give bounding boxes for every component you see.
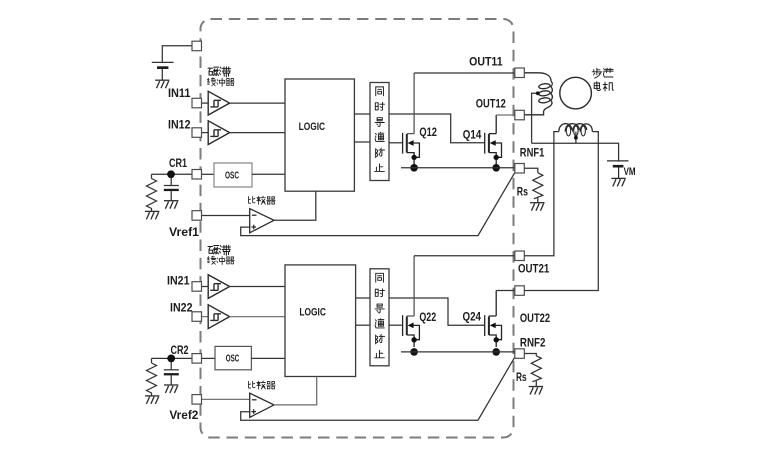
capacitor C0 (bypass, top-left) — [152, 61, 174, 63]
comparator A2 — [250, 393, 274, 417]
simultaneous-conduction-prevention block 1 — [370, 83, 389, 181]
wire from top-left pin to bypass capacitor — [162, 46, 192, 63]
wire LOGIC1 to prevention block (lower) — [354, 141, 370, 143]
pin Vref1 — [192, 211, 202, 221]
ground — [164, 201, 178, 209]
pin IN21 — [192, 282, 202, 292]
simultaneous-conduction-prevention block 2 — [370, 269, 389, 366]
pin OUT22 — [515, 286, 525, 296]
wire buffer U1B out to LOGIC — [230, 132, 285, 134]
OSC block 2 — [215, 346, 251, 369]
wire L1 centre tap to VM rail — [532, 93, 538, 143]
wire prevention1 upper out routed to Q14 gate — [389, 114, 484, 143]
wire VM rail — [532, 143, 619, 161]
pin IN12 — [192, 128, 202, 138]
ground — [530, 203, 544, 211]
wire buffer U1A out to LOGIC — [230, 102, 285, 104]
svg-text:Rs: Rs — [517, 186, 528, 198]
svg-text:OUT22: OUT22 — [520, 313, 550, 325]
wire OSC2 to LOGIC — [251, 357, 285, 359]
hysteresis buffer U1B — [208, 121, 229, 145]
hysteresis buffer U2B — [208, 305, 229, 329]
label simultaneous-conduction-prevention (CJK) vertical bottom block — [375, 273, 385, 358]
ground — [529, 387, 543, 395]
wire buffer U2B out to LOGIC — [230, 316, 285, 318]
node L2 tap dot — [574, 136, 578, 140]
pin RNF1 — [515, 164, 525, 174]
resistor Rs (channel 1 sense) — [533, 173, 543, 203]
wire LOGIC2 to prevention block (lower) — [356, 324, 370, 326]
svg-text:IN12: IN12 — [168, 120, 191, 132]
wire LOGIC1 to prevention block (upper) — [354, 113, 370, 115]
wire OUT12 net — [496, 114, 515, 116]
inductor L2 (motor winding B) between OUT21/OUT22 — [524, 132, 559, 256]
svg-text:Vref1: Vref1 — [169, 227, 200, 239]
svg-text:IN22: IN22 — [170, 303, 193, 315]
transistor Q14 — [485, 115, 502, 172]
svg-text:Rs: Rs — [516, 372, 527, 384]
svg-text:OUT11: OUT11 — [469, 56, 503, 68]
pin top-left unnamed — [192, 41, 202, 51]
wire IN11 pin to buffer — [202, 102, 208, 104]
svg-text:Q14: Q14 — [463, 129, 482, 141]
svg-text:LOGIC: LOGIC — [299, 121, 326, 133]
svg-text:RNF2: RNF2 — [520, 338, 546, 350]
svg-text:RNF1: RNF1 — [520, 148, 545, 160]
svg-text:OUT12: OUT12 — [476, 98, 506, 110]
resistor R2 (CR2 timing) — [147, 363, 157, 396]
resistor Rs (channel 2 sense) — [531, 356, 541, 387]
svg-text:CR1: CR1 — [169, 158, 187, 170]
pin Vref2 — [192, 395, 202, 405]
wire comparator A2 + feedback to RNF2 — [241, 357, 515, 420]
wire source bus 2 to RNF2 — [401, 351, 515, 353]
wire RNF2 pin to sense resistor — [524, 354, 536, 356]
wire OSC1 to LOGIC — [252, 173, 285, 175]
wire LOGIC2 to prevention block (upper) — [356, 297, 370, 299]
wire IN12 pin to buffer — [202, 132, 208, 134]
wire OUT21 net — [414, 255, 515, 257]
pin OUT11 — [515, 68, 525, 78]
wire prevention1 lower out to Q12 gate — [389, 142, 402, 144]
wire CR1 pin to OSC — [202, 173, 214, 175]
label comparator (CJK) top — [249, 196, 276, 204]
hysteresis buffer U1A — [208, 91, 229, 115]
OSC block 1 — [214, 163, 252, 187]
wire Vref1 pin to comparator — [202, 215, 250, 217]
svg-text:LOGIC: LOGIC — [299, 307, 326, 319]
pin IN11 — [192, 98, 202, 108]
pin OUT12 — [515, 110, 525, 120]
pin RNF2 — [515, 349, 525, 359]
wire source bus 1 to RNF1 — [401, 167, 515, 169]
wire IN21 pin to buffer — [202, 286, 208, 288]
ground — [155, 80, 169, 88]
wire prevention2 lower out to Q22 gate — [389, 324, 402, 326]
wire OUT22 net — [496, 290, 515, 292]
svg-text:IN21: IN21 — [167, 275, 190, 287]
resistor R1 (CR1 timing) — [147, 179, 157, 212]
node CR2 junction dot — [167, 355, 175, 363]
ground — [164, 385, 178, 393]
wire OUT11 net — [414, 72, 515, 74]
wire CR2 node to external RC — [152, 358, 193, 369]
LOGIC block 1 — [285, 79, 354, 191]
svg-text:OSC: OSC — [226, 353, 240, 364]
label simultaneous-conduction-prevention (CJK) vertical top block — [375, 87, 385, 172]
IC boundary dashed box — [201, 19, 514, 438]
hysteresis buffer U2A — [208, 275, 229, 299]
LOGIC block 2 — [285, 265, 356, 377]
label hysteresis-buffer (CJK) top — [208, 67, 235, 86]
wire IN22 pin to buffer — [202, 316, 208, 318]
pin CR2 — [192, 354, 202, 364]
inductor L1 (motor winding A) between OUT11/OUT12 — [524, 73, 551, 81]
wire comparator A1 output to LOGIC1 — [274, 191, 316, 220]
ground — [145, 211, 159, 219]
pin IN22 — [192, 312, 202, 322]
ground — [611, 178, 625, 186]
wire buffer U2A out to LOGIC — [230, 286, 285, 288]
capacitor C1 (CR1 timing) — [164, 185, 179, 187]
wire CR2 pin to OSC — [202, 357, 215, 359]
label hysteresis-buffer (CJK) bottom — [208, 245, 235, 264]
transistor Q24 — [485, 291, 502, 356]
wire RNF1 pin to sense resistor — [524, 168, 538, 173]
svg-text:Vref2: Vref2 — [169, 410, 198, 422]
comparator A1 — [250, 209, 274, 233]
svg-text:CR2: CR2 — [171, 345, 189, 357]
svg-text:OSC: OSC — [225, 170, 239, 181]
svg-text:OUT21: OUT21 — [518, 263, 550, 275]
wire comparator A2 output to LOGIC2 — [274, 377, 317, 405]
transistor Q12 — [403, 73, 420, 172]
node L1 tap dot — [536, 91, 540, 95]
wire CR1 node to external RC — [152, 174, 193, 185]
motor circle (stepper motor) — [560, 77, 592, 109]
svg-text:IN11: IN11 — [168, 88, 191, 100]
node CR1 junction dot — [167, 170, 175, 178]
wire prevention2 upper out routed to Q24 gate — [389, 298, 484, 325]
svg-text:Q24: Q24 — [463, 312, 482, 324]
pin OUT21 — [515, 251, 525, 261]
svg-text:Q12: Q12 — [419, 127, 437, 139]
wire comparator A1 + feedback to RNF1 — [241, 173, 515, 236]
label stepper-motor (CJK) — [592, 68, 613, 91]
capacitor C2 (CR2 timing) — [164, 369, 179, 371]
pin CR1 — [192, 170, 202, 180]
label comparator (CJK) bottom — [249, 381, 276, 389]
svg-text:VM: VM — [624, 166, 636, 178]
svg-text:Q22: Q22 — [419, 312, 436, 324]
wire Vref2 pin to comparator — [202, 398, 250, 400]
transistor Q22 — [403, 256, 420, 356]
ground — [145, 396, 159, 404]
wire L2 centre tap — [575, 132, 577, 144]
power VM supply symbol — [607, 160, 629, 162]
